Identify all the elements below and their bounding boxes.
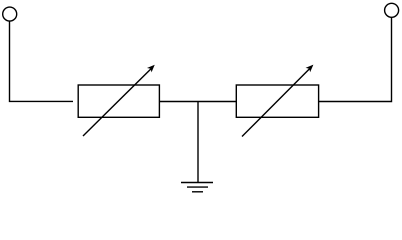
terminal T1 (left input): [3, 7, 17, 21]
wire: R2 right side up to T2: [319, 17, 392, 101]
ground bar 1: [181, 182, 213, 184]
ground bar 3: [192, 191, 203, 193]
resistor R1 wiper arrow shaft: [83, 69, 151, 136]
ground bar 2: [187, 186, 208, 188]
wire: T1 down and right toward R1: [10, 21, 74, 101]
resistor R2 wiper arrow shaft: [242, 69, 310, 137]
arrowhead of R2 wiper: [307, 65, 313, 71]
wire: center node down to ground: [197, 102, 199, 183]
terminal T2 (right input): [385, 3, 399, 17]
arrowhead of R1 wiper: [148, 65, 154, 71]
resistor R2 (variable, right) body: [236, 85, 318, 117]
resistor R1 (variable, left) body: [78, 85, 159, 117]
wire: R1 right side to center node: [159, 101, 236, 103]
